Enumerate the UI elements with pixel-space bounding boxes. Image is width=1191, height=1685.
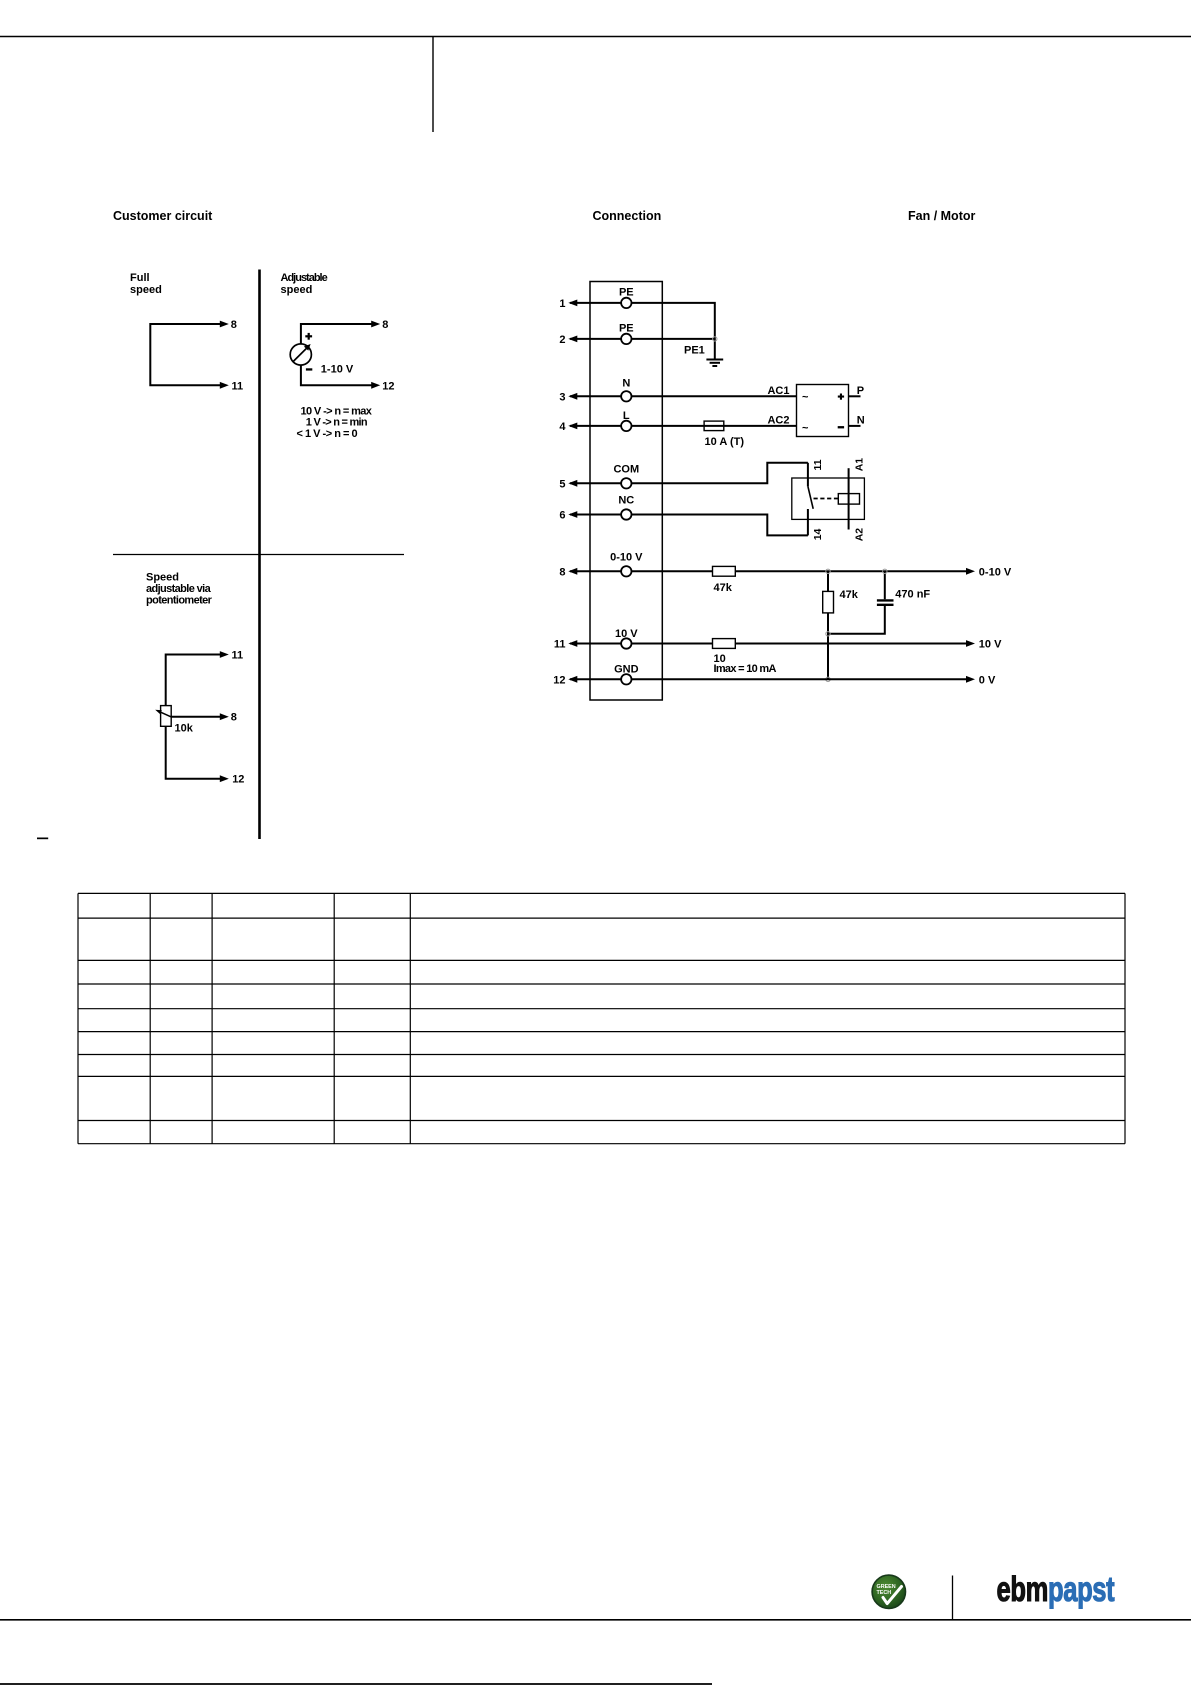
svg-text:0 V: 0 V (979, 674, 996, 686)
svg-text:potentiometer: potentiometer (146, 595, 213, 607)
svg-text:11: 11 (232, 380, 244, 392)
svg-text:PE: PE (619, 323, 634, 335)
wire: pin 1 PE to earth (570, 303, 715, 359)
wire: adjustable-speed source to terminal 8 (301, 324, 372, 344)
ground PE1 (706, 359, 723, 361)
wire: coil A1-A2 (848, 468, 850, 529)
svg-text:470 nF: 470 nF (895, 589, 930, 601)
svg-text:8: 8 (382, 319, 388, 331)
arrow out 0 V (966, 676, 975, 683)
footer rule (0, 1619, 1191, 1621)
svg-text:11: 11 (232, 650, 244, 662)
relay actuation dashed link (814, 498, 839, 500)
wire: pin 2 PE to earth (570, 338, 715, 340)
svg-text:speed: speed (130, 284, 162, 296)
svg-text:0-10 V: 0-10 V (979, 566, 1012, 578)
svg-text:AC1: AC1 (767, 385, 789, 397)
terminal L pin4 (621, 421, 631, 431)
fuse F1 10 A (T) (704, 421, 724, 431)
svg-text:1: 1 (559, 298, 565, 310)
logo strokes (997, 1569, 1048, 1609)
svg-text:5: 5 (559, 478, 565, 490)
voltage source V1 1-10 V (290, 344, 311, 365)
arrow pin 3 (568, 393, 577, 400)
svg-text:2: 2 (559, 334, 565, 346)
relay contact blade (808, 486, 813, 508)
arrow pin 2 (568, 336, 577, 343)
svg-text:8: 8 (231, 319, 237, 331)
arrow to terminal 8 (full speed) (220, 321, 229, 328)
svg-text:speed: speed (281, 284, 313, 296)
footer separator tick (952, 1576, 954, 1620)
svg-text:~: ~ (802, 423, 809, 435)
arrow to terminal 12 (adjustable) (371, 382, 380, 389)
arrow to terminal 11 (potentiometer) (220, 651, 229, 658)
resistor R2 47k vertical (823, 591, 834, 613)
divider between full and adjustable speed (258, 270, 261, 840)
terminal PE pin2 (621, 334, 631, 344)
arrow to terminal 8 (potentiometer) (220, 713, 229, 720)
terminal block box (590, 282, 662, 701)
svg-text:10k: 10k (175, 723, 194, 735)
svg-text:COM: COM (613, 463, 639, 475)
relay K1 box (792, 478, 865, 519)
capacitor C1 470 nF (877, 599, 894, 601)
svg-text:P: P (857, 385, 864, 397)
wire: pin 3 N to rectifier AC1 (570, 395, 797, 397)
svg-text:Speed: Speed (146, 571, 179, 583)
arrow pin 4 (568, 423, 577, 430)
wire: pin 5 COM to relay contact 11 (570, 463, 808, 484)
potentiometer R 10k (161, 706, 172, 727)
wire: rectifier output P (849, 395, 861, 397)
svg-text:47k: 47k (714, 582, 733, 594)
arrow to terminal 11 (full speed) (220, 382, 229, 389)
svg-text:Adjustable: Adjustable (281, 272, 328, 284)
resistor R1 47k (713, 566, 736, 576)
arrow pin 12 (568, 676, 577, 683)
arrow pin 5 (568, 480, 577, 487)
arrow out 0-10 V (966, 568, 975, 575)
arrow pin 8 (568, 568, 577, 575)
rectifier U1 (797, 385, 849, 437)
wire: full-speed loop 8 to 11 (150, 324, 220, 385)
header rule (0, 36, 1191, 38)
wire: pin 6 NC to relay contact 14 (570, 515, 808, 536)
arrow pin 6 (568, 511, 577, 518)
bottom partial rule (0, 1683, 712, 1685)
svg-text:11: 11 (554, 639, 566, 651)
svg-text:1 V -> n = min: 1 V -> n = min (306, 417, 368, 429)
svg-text:8: 8 (559, 566, 565, 578)
wire: pin 4 L to rectifier AC2 (570, 425, 797, 427)
svg-text:< 1 V -> n = 0: < 1 V -> n = 0 (297, 428, 358, 440)
wire: pin 8 0-10 V line (570, 570, 967, 572)
terminal GND pin12 (621, 674, 631, 684)
polarity - (306, 368, 312, 370)
svg-text:Full: Full (130, 272, 150, 284)
arrow out 10 V (966, 640, 975, 647)
svg-text:PE1: PE1 (684, 344, 705, 356)
svg-text:6: 6 (559, 510, 565, 522)
terminal NC pin6 (621, 509, 631, 519)
svg-text:10 A (T): 10 A (T) (705, 436, 745, 448)
separator below upper customer circuits (113, 554, 404, 556)
legend table (78, 893, 1125, 1143)
svg-text:A1: A1 (853, 458, 865, 472)
svg-text:3: 3 (559, 391, 565, 403)
svg-text:47k: 47k (840, 589, 859, 601)
wire: branch from 0-10 V down (827, 571, 829, 679)
wire: pin 12 GND line (570, 678, 967, 680)
svg-text:AC2: AC2 (767, 415, 789, 427)
relay coil (838, 494, 859, 505)
svg-text:~: ~ (802, 392, 809, 404)
wire: wiper to terminal 8 (171, 716, 220, 718)
relay contact stub 14 (807, 509, 809, 535)
svg-text:A2: A2 (853, 528, 865, 542)
svg-text:GND: GND (614, 664, 639, 676)
GreenTech badge (872, 1575, 905, 1608)
svg-text:0-10 V: 0-10 V (610, 551, 643, 563)
wire: capacitor branch (828, 571, 885, 634)
svg-text:Customer circuit: Customer circuit (113, 209, 213, 223)
svg-text:adjustable via: adjustable via (146, 583, 212, 595)
junction pin2/earth (713, 337, 717, 341)
svg-text:ebmpapst: ebmpapst (997, 1569, 1115, 1609)
stray dash left margin (37, 838, 48, 840)
terminal 0-10V pin8 (621, 566, 631, 576)
terminal 10V pin11 (621, 638, 631, 648)
potentiometer wiper arrow (159, 711, 171, 717)
svg-text:N: N (857, 415, 865, 427)
svg-text:Imax = 10 mA: Imax = 10 mA (714, 663, 777, 675)
wire: potentiometer top to terminal 11 (166, 655, 221, 779)
polarity + (308, 333, 310, 340)
svg-text:N: N (622, 378, 630, 390)
svg-text:12: 12 (232, 774, 244, 786)
wire: pin 11 10 V line (570, 643, 967, 645)
wire: adjustable-speed source to terminal 12 (301, 365, 372, 385)
svg-text:PE: PE (619, 287, 634, 299)
terminal PE pin1 (621, 298, 631, 308)
svg-text:10 V: 10 V (979, 639, 1002, 651)
terminal N pin3 (621, 391, 631, 401)
svg-text:TECH: TECH (877, 1590, 892, 1596)
svg-text:12: 12 (382, 380, 394, 392)
svg-text:10 V -> n = max: 10 V -> n = max (301, 405, 373, 417)
arrow to terminal 8 (adjustable) (371, 321, 380, 328)
svg-text:Connection: Connection (593, 209, 662, 223)
junction dots (826, 569, 830, 573)
svg-text:1-10 V: 1-10 V (321, 364, 354, 376)
svg-text:NC: NC (618, 494, 634, 506)
relay contact stub 11 (807, 463, 809, 487)
svg-text:12: 12 (553, 674, 565, 686)
arrow pin 11 (568, 640, 577, 647)
svg-text:11: 11 (812, 459, 824, 470)
terminal COM pin5 (621, 478, 631, 488)
arrow to terminal 12 (potentiometer) (220, 775, 229, 782)
svg-text:Fan / Motor: Fan / Motor (908, 209, 975, 223)
wire: rectifier output N (849, 425, 861, 427)
svg-text:14: 14 (812, 528, 824, 540)
svg-text:4: 4 (559, 421, 566, 433)
header column tick (432, 37, 434, 133)
svg-text:8: 8 (231, 712, 237, 724)
svg-text:10 V: 10 V (615, 628, 638, 640)
svg-text:L: L (623, 410, 630, 422)
resistor R3 10 (713, 639, 736, 649)
arrow pin 1 (568, 300, 577, 307)
